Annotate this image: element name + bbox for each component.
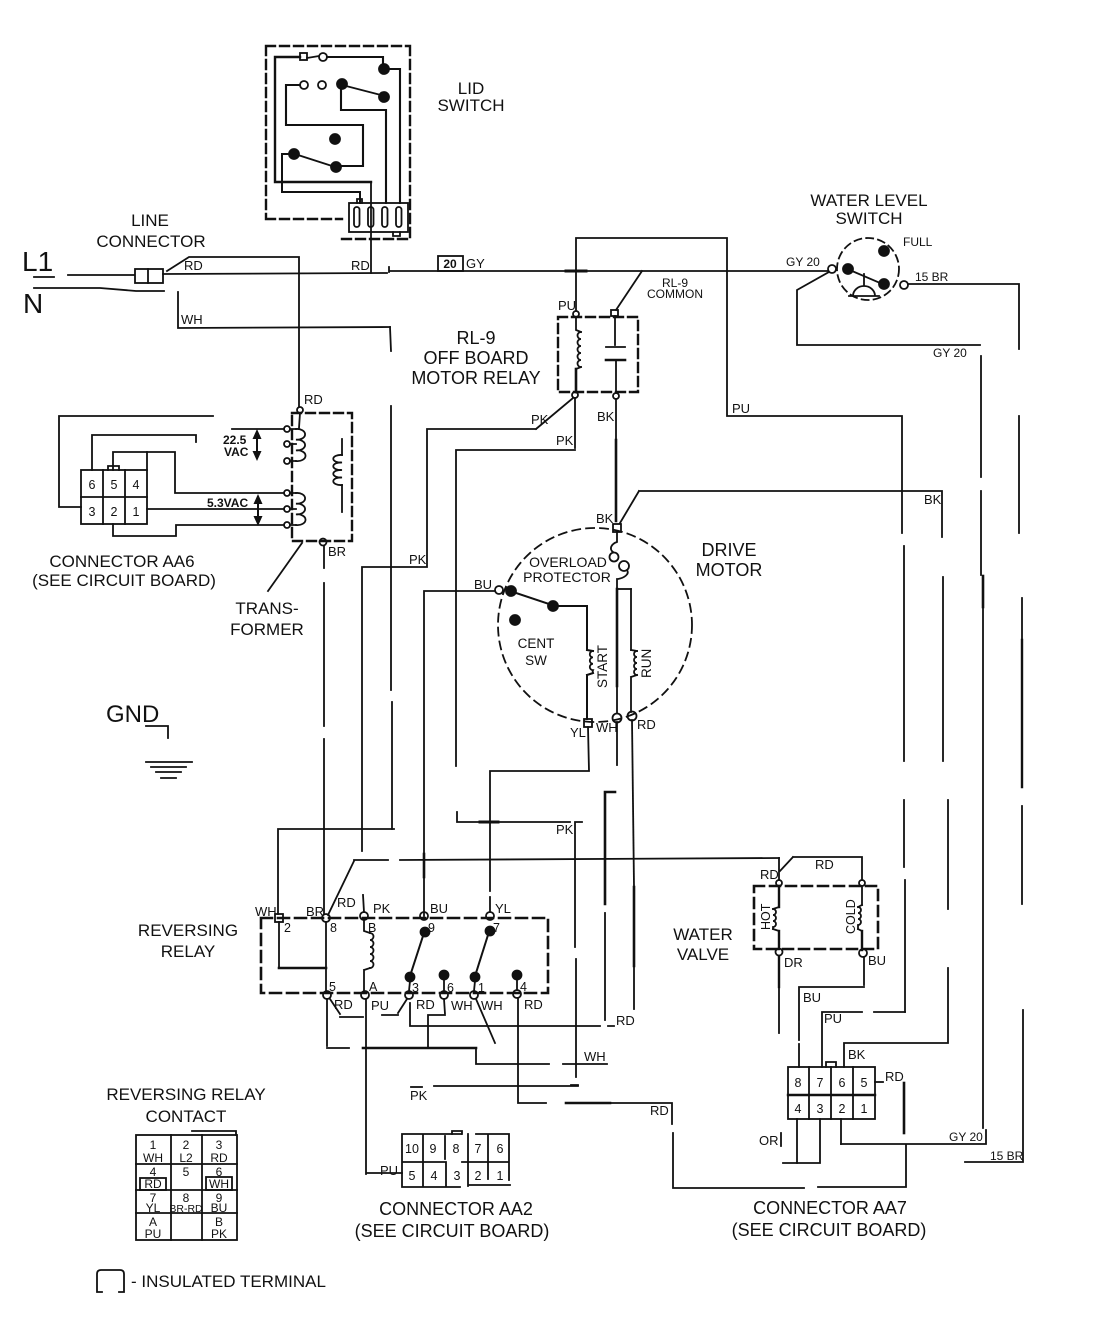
transformer primary coil upper	[284, 426, 306, 464]
relay terminal 4 dot	[513, 971, 522, 991]
svg-text:RD: RD	[815, 857, 834, 872]
contact dot (row1)	[379, 64, 389, 74]
pivot dot lower	[289, 149, 299, 159]
svg-text:2: 2	[839, 1102, 846, 1116]
label PU mid	[732, 401, 750, 416]
svg-text:BK: BK	[597, 409, 615, 424]
svg-text:YL: YL	[570, 725, 586, 740]
label RD at relay 8	[337, 895, 356, 910]
wire PU relay A to AA2	[366, 999, 402, 1174]
wire WH bottom run	[363, 1048, 607, 1064]
wire DR down	[778, 956, 780, 1033]
relay coil B-A	[364, 920, 374, 991]
svg-text:SW: SW	[525, 653, 547, 668]
AA7 pin5 RD tick	[875, 1081, 883, 1083]
water valve RD terminal hot	[776, 858, 782, 886]
relay RL-9 box	[558, 317, 638, 392]
wire RD jumper to cold	[780, 857, 862, 880]
wire WH vertical drop	[390, 327, 392, 829]
svg-text:15 BR: 15 BR	[990, 1149, 1024, 1163]
svg-text:OFF BOARD: OFF BOARD	[423, 348, 528, 368]
wire N feed	[34, 288, 390, 328]
label LINE CONNECTOR	[96, 211, 205, 251]
connector AA7	[788, 1062, 875, 1119]
connector AA2	[402, 1131, 510, 1187]
label BU mid	[803, 990, 821, 1005]
svg-text:BR-RD: BR-RD	[169, 1203, 203, 1215]
wire run branch	[630, 589, 632, 650]
wire PK2 RL-9 down run	[456, 398, 582, 1085]
label RD mid run	[650, 1103, 669, 1118]
svg-text:WH: WH	[209, 1177, 229, 1191]
svg-text:RD: RD	[885, 1069, 904, 1084]
svg-text:CONNECTOR AA7: CONNECTOR AA7	[753, 1198, 907, 1218]
relay 8-5 internal link	[325, 922, 327, 991]
relay terminal 1	[470, 991, 478, 999]
svg-text:REVERSING: REVERSING	[138, 921, 238, 940]
transformer secondary coil	[333, 439, 342, 512]
drive motor M1	[498, 528, 692, 722]
svg-text:1: 1	[133, 505, 140, 519]
wire PU net top run	[576, 238, 905, 1133]
svg-text:N: N	[23, 288, 43, 319]
svg-text:PU: PU	[145, 1227, 162, 1241]
switch arm lower	[298, 155, 332, 166]
svg-text:VALVE: VALVE	[677, 945, 729, 964]
wire RD motor down	[632, 720, 634, 1009]
wire L1 RD to lid switch	[163, 273, 387, 274]
transformer RD terminal	[297, 407, 303, 428]
svg-text:START: START	[595, 645, 610, 688]
wire row2 circle left loop	[286, 85, 363, 166]
svg-text:7: 7	[817, 1076, 824, 1090]
svg-text:RD: RD	[524, 997, 543, 1012]
svg-text:PU: PU	[371, 998, 389, 1013]
svg-text:DRIVE: DRIVE	[701, 540, 756, 560]
motor junction to run branch	[617, 588, 631, 590]
svg-text:PK: PK	[373, 901, 391, 916]
svg-text:MOTOR RELAY: MOTOR RELAY	[411, 368, 540, 388]
svg-text:GY: GY	[466, 256, 485, 271]
svg-text:WH: WH	[451, 998, 473, 1013]
svg-text:BK: BK	[848, 1047, 866, 1062]
ground hatching	[146, 762, 192, 778]
svg-text:4: 4	[795, 1102, 802, 1116]
connector AA6	[81, 466, 147, 524]
svg-text:RD: RD	[210, 1151, 228, 1165]
svg-text:5: 5	[329, 980, 336, 994]
svg-text:CENT: CENT	[518, 636, 555, 651]
svg-text:BK: BK	[924, 492, 942, 507]
svg-text:(SEE CIRCUIT BOARD): (SEE CIRCUIT BOARD)	[355, 1221, 550, 1241]
label RD at relay 4	[524, 997, 543, 1012]
svg-text:RELAY: RELAY	[161, 942, 216, 961]
svg-text:PU: PU	[732, 401, 750, 416]
svg-text:6: 6	[839, 1076, 846, 1090]
label INSULATED TERMINAL	[131, 1272, 326, 1291]
water valve DR terminal	[776, 949, 783, 956]
svg-text:WATER: WATER	[673, 925, 733, 944]
label 5	[329, 980, 336, 994]
wire AA6-1 to transformer	[147, 508, 284, 510]
label CONNECTOR AA6	[32, 552, 216, 590]
transformer primary coil lower	[284, 490, 306, 528]
label WH bottom	[584, 1049, 606, 1064]
svg-text:RD: RD	[144, 1177, 162, 1191]
water level switch arm	[852, 271, 880, 283]
wire relay 1 diagonal	[476, 999, 495, 1043]
svg-text:RD: RD	[351, 258, 370, 273]
svg-text:4: 4	[133, 478, 140, 492]
water valve cold terminal	[859, 880, 865, 886]
svg-text:3: 3	[412, 981, 419, 995]
relay terminal 6 dot	[440, 971, 449, 992]
svg-text:WH: WH	[481, 998, 503, 1013]
label PU at AA7	[824, 1011, 842, 1026]
label RUN	[639, 649, 654, 678]
wire BR to reversing relay 8	[323, 546, 325, 914]
svg-text:OR: OR	[759, 1133, 779, 1148]
water level right contact	[900, 281, 908, 289]
svg-text:LINE: LINE	[131, 211, 169, 230]
RL-9 COMMON terminal	[611, 310, 618, 316]
svg-text:A: A	[369, 980, 378, 994]
svg-text:HOT: HOT	[759, 903, 773, 930]
reversing relay contact table	[136, 1131, 237, 1240]
svg-text:PK: PK	[211, 1227, 227, 1241]
wire RL-9 COMMON to GY	[616, 271, 642, 310]
relay terminal 2	[275, 914, 283, 922]
HOT solenoid	[773, 886, 779, 949]
svg-text:4: 4	[431, 1169, 438, 1183]
label RL-9 COMMON	[647, 276, 703, 301]
lid switch LS1	[266, 46, 410, 239]
wire lower pivot to slot1	[282, 154, 360, 203]
label 9	[428, 921, 435, 935]
svg-text:PU: PU	[558, 298, 576, 313]
water level lower dot	[879, 279, 889, 289]
label RD at valve left	[760, 867, 779, 882]
relay terminal 7	[486, 912, 494, 920]
pivot dot (row2)	[337, 79, 347, 89]
insulated terminal box cell4	[140, 1178, 166, 1190]
label PK mid drop	[556, 822, 574, 837]
svg-text:PU: PU	[824, 1011, 842, 1026]
wire cent sw to start winding	[558, 606, 587, 650]
AA2 pin numbers	[405, 1142, 503, 1183]
wire AA6-3 left loop	[59, 416, 213, 507]
cent sw arm	[516, 593, 549, 604]
cent sw open contact dot	[510, 615, 520, 625]
svg-text:L1: L1	[22, 246, 53, 277]
svg-text:3: 3	[89, 505, 96, 519]
relay terminal 5	[323, 991, 331, 999]
label OVERLOAD PROTECTOR	[523, 554, 611, 585]
svg-text:MOTOR: MOTOR	[696, 560, 763, 580]
wire BK motor to right	[620, 491, 948, 1067]
svg-text:FULL: FULL	[903, 235, 933, 249]
svg-text:RD: RD	[304, 392, 323, 407]
svg-text:1: 1	[150, 1138, 157, 1152]
label 1	[478, 981, 485, 995]
label B	[368, 921, 376, 935]
water valve BU terminal	[859, 949, 867, 957]
label WH at relay 1	[481, 998, 503, 1013]
label RD at relay 5	[334, 997, 353, 1012]
svg-text:RD: RD	[184, 258, 203, 273]
svg-text:PK: PK	[556, 433, 574, 448]
cent sw pivot dot	[506, 586, 516, 596]
label CENT SW	[518, 636, 555, 668]
label 7	[493, 921, 500, 935]
svg-text:RD: RD	[637, 717, 656, 732]
relay terminal 9	[420, 912, 428, 920]
label WATER LEVEL SWITCH	[810, 191, 927, 228]
wire AA7 pin2 GY stub	[840, 1119, 842, 1144]
svg-text:15 BR: 15 BR	[915, 270, 949, 284]
label YL at motor	[570, 725, 586, 740]
svg-text:1: 1	[861, 1102, 868, 1116]
label 15 BR top	[915, 270, 949, 284]
table cell texts	[143, 1138, 229, 1241]
contact dot lower arm end	[331, 162, 341, 172]
label BK right corner	[924, 492, 942, 507]
label BR	[328, 544, 346, 559]
svg-text:5: 5	[111, 478, 118, 492]
arrow 5.3VAC	[254, 494, 263, 526]
cent sw arm dot	[548, 601, 558, 611]
svg-text:BR: BR	[328, 544, 346, 559]
insulated terminal box cell6	[206, 1177, 232, 1190]
wire L1 feed	[68, 274, 134, 276]
START winding	[587, 650, 593, 719]
svg-text:5: 5	[861, 1076, 868, 1090]
ground hook	[146, 726, 168, 738]
svg-text:CONNECTOR AA6: CONNECTOR AA6	[49, 552, 194, 571]
label LID SWITCH	[437, 79, 504, 115]
svg-text:DR: DR	[784, 955, 803, 970]
relay 7-1 contact	[471, 927, 495, 992]
alternate contact dot	[330, 134, 340, 144]
label 6	[447, 981, 454, 995]
wire YL motor to relay 7	[490, 727, 589, 912]
svg-text:2: 2	[475, 1169, 482, 1183]
svg-text:BR: BR	[306, 904, 324, 919]
RL-9 coil	[576, 317, 581, 392]
svg-text:CONNECTOR AA2: CONNECTOR AA2	[379, 1199, 533, 1219]
svg-text:2: 2	[284, 921, 291, 935]
label PU at AA2	[380, 1163, 398, 1178]
motor RD terminal	[628, 712, 637, 721]
label GY 20 bottom	[949, 1130, 983, 1144]
svg-text:8: 8	[795, 1076, 802, 1090]
svg-text:SWITCH: SWITCH	[835, 209, 902, 228]
label BK at motor	[596, 511, 614, 526]
svg-text:CONTACT: CONTACT	[146, 1107, 227, 1126]
svg-text:OVERLOAD: OVERLOAD	[529, 554, 607, 570]
wire row1 circle to contact dot	[327, 57, 383, 65]
svg-text:BU: BU	[430, 901, 448, 916]
AA7 pin numbers	[795, 1076, 868, 1116]
svg-text:PK: PK	[531, 412, 549, 427]
svg-text:CONNECTOR: CONNECTOR	[96, 232, 205, 251]
svg-text:20: 20	[443, 257, 457, 271]
svg-text:RL-9: RL-9	[456, 328, 495, 348]
label 3	[412, 981, 419, 995]
svg-text:YL: YL	[495, 901, 511, 916]
label RD at motor	[637, 717, 656, 732]
water level switch S2	[837, 238, 899, 300]
switch arm row2	[346, 86, 381, 95]
svg-text:FORMER: FORMER	[230, 620, 304, 639]
wire square1 to connector slot2	[275, 57, 371, 273]
lid switch connector	[349, 199, 408, 236]
RL-9 BK terminal	[613, 393, 619, 399]
svg-text:RUN: RUN	[639, 649, 654, 678]
contact dot row2 end	[379, 92, 389, 102]
svg-text:(SEE CIRCUIT BOARD): (SEE CIRCUIT BOARD)	[32, 571, 216, 590]
label GY 20 right	[786, 255, 820, 269]
svg-text:VAC: VAC	[224, 445, 249, 459]
label PU at RL-9	[558, 298, 576, 313]
label RD at valve top	[815, 857, 834, 872]
lid switch contact row 2	[300, 81, 326, 89]
svg-text:BK: BK	[596, 511, 614, 526]
L1 underline	[34, 276, 54, 278]
svg-text:3: 3	[817, 1102, 824, 1116]
label PK bottom	[410, 1087, 428, 1103]
node L1	[22, 246, 53, 277]
motor YL terminal	[584, 719, 592, 727]
wire GY main run	[389, 267, 828, 272]
transformer BR terminal	[320, 539, 327, 546]
RUN winding	[631, 650, 637, 712]
svg-text:5: 5	[409, 1169, 416, 1183]
svg-text:1: 1	[478, 981, 485, 995]
label GY 20 mid	[933, 346, 967, 360]
svg-text:BU: BU	[803, 990, 821, 1005]
label RD at connector	[184, 258, 203, 273]
wire dot1 to connector slot4	[389, 69, 400, 203]
label COLD	[844, 899, 858, 934]
wire WH motor down	[605, 722, 617, 1020]
wire relay 5 down	[327, 999, 363, 1048]
wire relay 6 down	[428, 999, 445, 1048]
svg-text:PK: PK	[410, 1088, 428, 1103]
label FULL	[903, 235, 933, 249]
label RD at relay 3	[416, 997, 435, 1012]
overload protector	[610, 532, 630, 589]
svg-text:(SEE CIRCUIT BOARD): (SEE CIRCUIT BOARD)	[732, 1220, 927, 1240]
label PK diag	[531, 412, 549, 427]
svg-text:10: 10	[405, 1142, 419, 1156]
svg-text:L2: L2	[179, 1151, 193, 1165]
wire WH horizontal to relay	[278, 829, 394, 914]
svg-text:BU: BU	[211, 1201, 228, 1215]
label RL-9 OFF BOARD MOTOR RELAY	[411, 328, 540, 388]
svg-text:GND: GND	[106, 701, 159, 728]
water valve assembly	[754, 886, 878, 949]
svg-text:8: 8	[453, 1142, 460, 1156]
label OR	[759, 1133, 779, 1148]
wire 15 BR from switch	[908, 284, 1023, 1162]
svg-text:2: 2	[183, 1138, 190, 1152]
label RD at lid wire	[351, 258, 370, 273]
wire AA6-2 to transformer	[113, 524, 284, 536]
svg-text:GY 20: GY 20	[949, 1130, 983, 1144]
svg-text:WH: WH	[181, 312, 203, 327]
label BU at relay 9	[430, 901, 448, 916]
motor WH terminal	[613, 714, 622, 723]
label A	[369, 980, 378, 994]
svg-text:5.3VAC: 5.3VAC	[207, 496, 248, 510]
svg-text:1: 1	[497, 1169, 504, 1183]
svg-text:WH: WH	[596, 720, 618, 735]
AA6 pin numbers	[89, 478, 140, 519]
RL-9 PK terminal	[572, 392, 578, 398]
label 22.5 VAC	[223, 433, 249, 459]
svg-text:6: 6	[497, 1142, 504, 1156]
label START	[595, 645, 610, 688]
wire AA6-6 to transformer	[92, 429, 284, 470]
label PK at relay B	[373, 901, 391, 916]
water level left contact	[828, 265, 836, 273]
wire AA7 pin3 down	[797, 1119, 820, 1163]
COLD solenoid	[858, 886, 862, 950]
label REVERSING RELAY CONTACT	[106, 1085, 265, 1126]
svg-text:PU: PU	[380, 1163, 398, 1178]
label WH at relay 2	[255, 904, 277, 919]
line connector J1	[135, 269, 163, 283]
svg-text:BU: BU	[868, 953, 886, 968]
wire BK RL-9 to motor	[615, 399, 617, 521]
ground symbol GND	[106, 701, 159, 728]
svg-text:SWITCH: SWITCH	[437, 96, 504, 115]
svg-text:3: 3	[454, 1169, 461, 1183]
label CONNECTOR AA2	[355, 1199, 550, 1241]
svg-text:WH: WH	[143, 1151, 163, 1165]
wire PK bottom stub	[434, 1085, 578, 1087]
relay 2 internal link	[279, 922, 326, 968]
water level pivot dot	[843, 264, 853, 274]
label WH at motor	[596, 720, 618, 735]
label 8	[330, 921, 337, 935]
label 15 BR bottom	[990, 1149, 1024, 1163]
svg-text:RD: RD	[650, 1103, 669, 1118]
RL-9 PU terminal	[573, 311, 579, 317]
wire GY 20 right run	[797, 272, 986, 1144]
label PK second	[556, 433, 574, 448]
svg-text:WH: WH	[255, 904, 277, 919]
svg-text:YL: YL	[146, 1201, 161, 1215]
reversing relay K1 box	[261, 918, 548, 993]
label HOT	[759, 903, 773, 930]
label BK upper	[597, 409, 615, 424]
label PU at relay A	[371, 998, 389, 1013]
svg-text:RD: RD	[616, 1013, 635, 1028]
wire PK1 RL-9 to relay B	[362, 398, 573, 912]
label PK corner	[409, 552, 427, 567]
node N	[23, 288, 43, 319]
label RD at AA7	[885, 1069, 904, 1084]
label REVERSING RELAY	[138, 921, 238, 961]
relay terminal B	[360, 912, 368, 920]
svg-text:8: 8	[330, 921, 337, 935]
svg-text:5: 5	[183, 1165, 190, 1179]
svg-text:BU: BU	[474, 577, 492, 592]
relay terminal 6	[440, 991, 448, 999]
label DR	[784, 955, 803, 970]
